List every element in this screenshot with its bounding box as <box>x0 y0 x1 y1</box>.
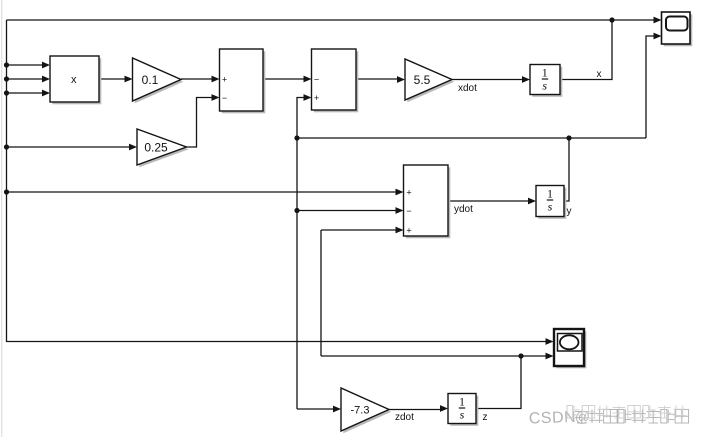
arrowhead gain G2 in <box>129 144 137 151</box>
arrowhead sum S2 in1 <box>304 76 312 83</box>
arrowhead gain G3 in <box>397 76 405 83</box>
wire y vertical down <box>296 138 298 409</box>
gain G4 -7.3 <box>341 388 389 431</box>
watermark glyph row2-4 <box>628 406 641 419</box>
wire integrator I3 output z <box>476 356 521 409</box>
product P1 <box>50 56 99 102</box>
junction node y integrator <box>566 135 571 140</box>
svg-text:x: x <box>71 74 77 86</box>
shadow sum S2 <box>314 51 359 112</box>
svg-text:z: z <box>483 412 488 423</box>
wire z to sum S3 plus <box>321 229 397 231</box>
svg-text:+: + <box>406 226 411 236</box>
wire gain G1 output <box>181 78 213 80</box>
integrator I2 <box>536 186 564 217</box>
shadow integrator I2 <box>538 188 566 219</box>
svg-text:1: 1 <box>459 395 465 409</box>
shadow gain G3 <box>407 61 454 102</box>
wire product input 2 <box>7 78 44 80</box>
arrowhead sum S3 in3 <box>396 227 404 234</box>
wire x to sum S3 input1 <box>7 191 398 193</box>
arrowhead XY graph in2 <box>546 353 554 360</box>
wire to gain G2 0.25 <box>7 146 131 148</box>
svg-text:+: + <box>314 93 319 103</box>
watermark glyph row2-2 <box>597 408 610 410</box>
wire y to scope input 2 <box>646 36 655 138</box>
arrowhead sum S3 in1 <box>396 189 404 196</box>
watermark glyph row2-6 <box>658 407 671 409</box>
shadow gain G4 <box>343 390 391 433</box>
watermark glyph row2-1 <box>582 406 595 419</box>
junction node product in1 <box>4 62 9 67</box>
watermark glyph row2-7 <box>673 408 686 410</box>
junction node product in3 <box>4 90 9 95</box>
junction node x top <box>609 17 614 22</box>
wire gain G4 output zdot <box>389 409 441 411</box>
wire z horizontal to XY graph <box>321 355 548 357</box>
integrator I2 fraction bar <box>547 199 553 201</box>
svg-text:−: − <box>406 206 411 216</box>
junction node y sum S3 <box>294 208 299 213</box>
watermark glyph row1-3 <box>618 410 624 424</box>
shadow scope <box>664 14 693 46</box>
wire product output <box>99 78 126 80</box>
integrator I1 <box>530 65 560 95</box>
arrowhead sum S1 in1 <box>212 76 220 83</box>
XY graph axes box <box>558 334 583 352</box>
arrowhead gain G4 in <box>333 406 341 413</box>
arrowhead sum S3 in2 <box>396 207 404 214</box>
sum S3 ydot <box>404 165 449 236</box>
svg-text:+: + <box>222 75 227 85</box>
integrator I3 <box>448 394 476 424</box>
wire z vertical <box>320 230 322 356</box>
arrowhead gain G1 in <box>125 76 133 83</box>
shadow XY graph <box>556 331 586 368</box>
watermark glyph row2-3 <box>613 407 626 409</box>
wire y horizontal <box>297 137 646 139</box>
svg-text:zdot: zdot <box>395 412 414 423</box>
wire sum S2 output <box>356 78 398 80</box>
wire product input 3 <box>7 92 44 94</box>
arrowhead XY graph in1 <box>546 338 554 345</box>
wire integrator I2 output up <box>564 138 569 201</box>
wire x feedback left <box>6 20 8 342</box>
arrowhead scope in2 <box>654 33 662 40</box>
svg-text:xdot: xdot <box>458 83 477 94</box>
XY graph ellipse <box>560 335 579 349</box>
junction node sum S3 in1 <box>4 189 9 194</box>
gain G1 0.1 <box>133 58 182 101</box>
wire x to XY graph <box>7 341 549 343</box>
watermark glyph row1-4 <box>632 413 646 415</box>
wire integrator I1 output x <box>560 20 612 80</box>
svg-text:+: + <box>406 188 411 198</box>
svg-text:−: − <box>222 93 227 103</box>
sum S1 <box>220 49 264 111</box>
shadow integrator I3 <box>450 396 478 426</box>
junction node z <box>518 353 523 358</box>
arrowhead scope in1 <box>654 17 662 24</box>
watermark glyph row1-7 <box>675 410 689 424</box>
svg-text:1: 1 <box>542 66 548 80</box>
svg-text:y: y <box>567 206 572 217</box>
arrowhead product in2 <box>42 76 50 83</box>
svg-text:s: s <box>460 408 465 422</box>
arrowhead integrator I1 in <box>522 76 530 83</box>
svg-text:-7.3: -7.3 <box>351 405 370 417</box>
junction node y left <box>294 135 299 140</box>
arrowhead product in3 <box>42 90 50 97</box>
svg-text:x: x <box>597 69 602 80</box>
watermark glyph row1-5 <box>647 411 661 413</box>
junction node gain G2 <box>4 144 9 149</box>
watermark glyph row2-5 <box>643 406 649 419</box>
svg-text:5.5: 5.5 <box>414 73 431 87</box>
shadow sum S1 <box>222 51 265 113</box>
XY graph block <box>554 329 584 366</box>
arrowhead sum S2 in2 <box>304 94 312 101</box>
shadow product P1 <box>52 58 101 104</box>
wire x feedback top <box>7 19 657 21</box>
shadow gain G2 <box>139 131 189 167</box>
svg-text:s: s <box>542 79 547 93</box>
arrowhead sum S1 in2 <box>212 94 220 101</box>
watermark glyph row2-0 <box>567 406 573 419</box>
watermark glyph row1-0 <box>575 411 589 413</box>
gain G2 0.25 <box>137 129 187 165</box>
watermark glyph row1-2 <box>604 410 618 424</box>
wire y to sum S3 minus <box>297 210 397 212</box>
wire product input 1 <box>7 64 44 66</box>
canvas edge line <box>1 0 3 437</box>
arrowhead integrator I2 in <box>528 198 536 205</box>
svg-text:ydot: ydot <box>454 204 473 215</box>
scope block <box>662 12 691 44</box>
svg-text:s: s <box>548 200 553 214</box>
gain G3 5.5 <box>405 59 452 100</box>
wire y to sum S2 plus <box>297 98 305 139</box>
svg-text:−: − <box>314 75 319 85</box>
watermark glyph row1-6 <box>661 410 667 424</box>
integrator I1 fraction bar <box>542 78 548 80</box>
svg-text:1: 1 <box>547 187 553 201</box>
junction node product in2 <box>4 76 9 81</box>
wire y to gain G4 <box>297 408 334 410</box>
wire gain G2 output to sum S1 minus <box>187 98 214 148</box>
wire sum S1 output <box>263 78 305 80</box>
shadow gain G1 <box>135 60 184 103</box>
scope screen <box>666 17 688 31</box>
watermark glyph row1-1 <box>589 413 603 415</box>
shadow sum S3 <box>406 167 451 238</box>
sum S2 <box>312 49 357 110</box>
arrowhead product in1 <box>42 62 50 69</box>
wire sum S3 output ydot <box>448 200 529 202</box>
integrator I3 fraction bar <box>459 407 465 409</box>
shadow integrator I1 <box>532 67 562 97</box>
svg-text:0.1: 0.1 <box>142 73 159 87</box>
svg-text:0.25: 0.25 <box>144 141 168 155</box>
wire gain G3 output xdot <box>452 79 523 81</box>
arrowhead integrator I3 in <box>440 405 448 412</box>
